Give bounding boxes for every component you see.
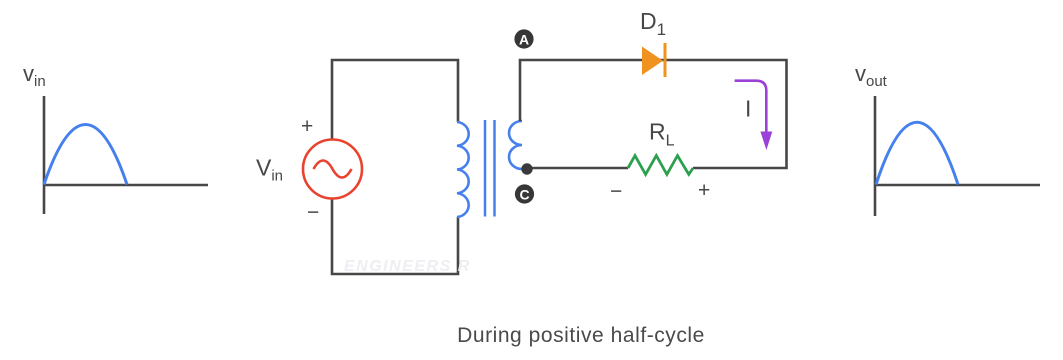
- svg-text:I: I: [745, 96, 751, 122]
- input graph vertical axis: [43, 96, 46, 214]
- svg-text:D1: D1: [640, 8, 666, 39]
- output waveform half-sine: [876, 122, 958, 184]
- svg-text:+: +: [301, 115, 313, 138]
- diode D1: [642, 43, 665, 77]
- transformer secondary winding: [509, 121, 522, 169]
- svg-text:During positive half-cycle: During positive half-cycle: [457, 324, 705, 347]
- node C: [515, 184, 534, 203]
- output graph horizontal axis: [874, 184, 1040, 187]
- svg-text:A: A: [519, 32, 529, 48]
- current arrow I: [735, 81, 773, 150]
- output graph vertical axis: [874, 96, 877, 216]
- svg-text:RL: RL: [649, 119, 675, 150]
- node A: [514, 29, 533, 48]
- ac source V1: [303, 140, 362, 199]
- svg-text:vout: vout: [855, 61, 888, 90]
- transformer core: [485, 120, 495, 217]
- svg-text:C: C: [519, 187, 529, 203]
- junction dot at C: [521, 163, 532, 174]
- wire: primary loop: [332, 60, 458, 274]
- wire: load return to node C: [527, 167, 628, 170]
- svg-text:+: +: [698, 179, 710, 202]
- transformer primary winding: [457, 122, 469, 217]
- svg-text:Vin: Vin: [256, 155, 283, 185]
- input waveform half-sine: [44, 125, 127, 185]
- input graph horizontal axis: [43, 184, 208, 187]
- svg-text:ENGINEERS R: ENGINEERS R: [344, 258, 471, 275]
- svg-text:−: −: [307, 201, 319, 224]
- resistor RL: [628, 156, 693, 175]
- wire: secondary top and right side: [520, 60, 787, 168]
- svg-text:vin: vin: [23, 61, 46, 90]
- svg-text:−: −: [610, 180, 622, 203]
